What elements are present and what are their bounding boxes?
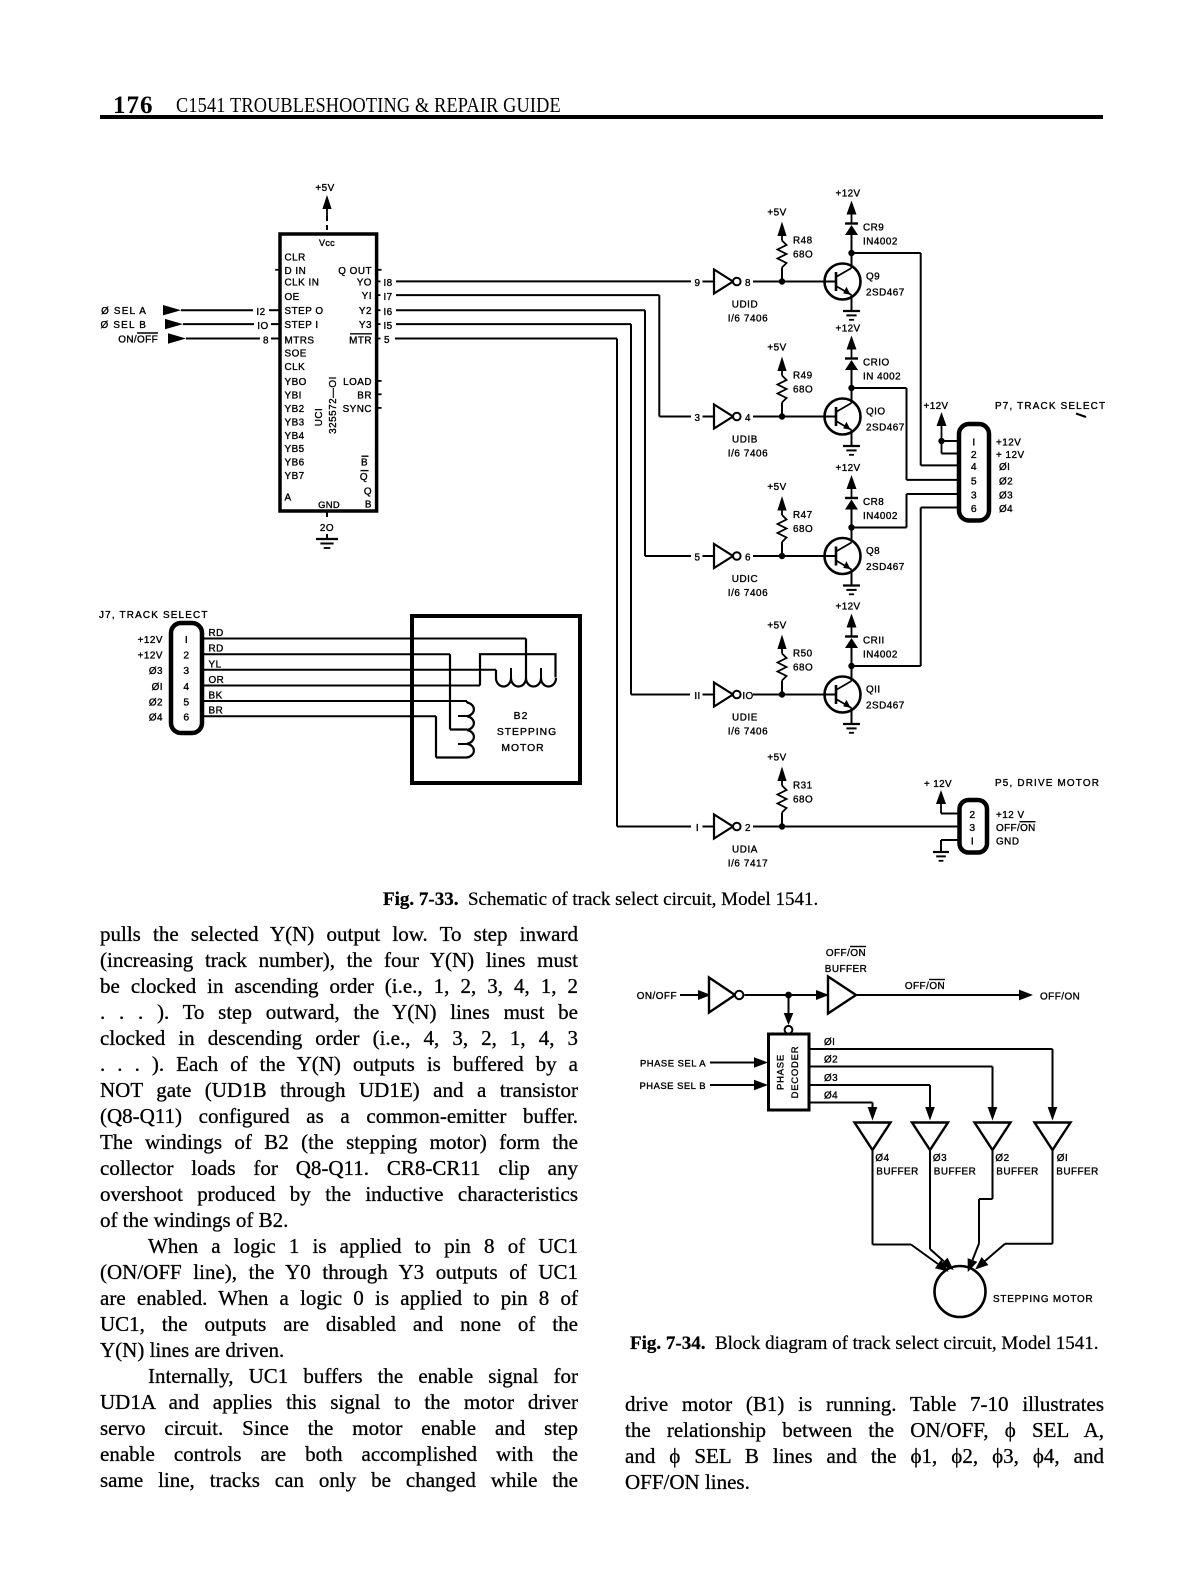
svg-text:QIO: QIO: [866, 407, 886, 418]
svg-text:+12V: +12V: [836, 463, 861, 474]
svg-text:YB3: YB3: [285, 417, 305, 428]
svg-text:8: 8: [263, 335, 269, 346]
svg-text:6: 6: [745, 553, 751, 564]
svg-text:+12 V: +12 V: [996, 810, 1025, 821]
svg-text:MTRS: MTRS: [285, 335, 315, 346]
svg-text:68O: 68O: [793, 795, 813, 806]
svg-text:+12V: +12V: [996, 437, 1021, 448]
svg-text:Ø4: Ø4: [149, 713, 163, 724]
svg-text:+12V: +12V: [138, 651, 163, 662]
svg-text:Ø3: Ø3: [933, 1153, 947, 1164]
svg-text:CLK: CLK: [285, 362, 306, 373]
svg-text:6: 6: [183, 713, 189, 724]
svg-text:OE: OE: [285, 292, 300, 303]
svg-text:I/6 7406: I/6 7406: [728, 727, 769, 738]
svg-text:+ 12V: + 12V: [924, 779, 952, 790]
svg-text:4: 4: [745, 413, 751, 424]
svg-text:+12V: +12V: [836, 602, 861, 613]
svg-text:YB5: YB5: [285, 444, 305, 455]
svg-text:Q8: Q8: [866, 546, 880, 557]
svg-text:RD: RD: [209, 644, 224, 655]
svg-text:Y2: Y2: [359, 306, 372, 317]
svg-text:YB7: YB7: [285, 471, 305, 482]
svg-text:2: 2: [745, 823, 751, 834]
svg-text:YO: YO: [357, 277, 372, 288]
svg-text:PHASE SEL A: PHASE SEL A: [640, 1059, 706, 1070]
svg-text:Ø2: Ø2: [999, 476, 1013, 487]
svg-text:Ø4: Ø4: [824, 1091, 838, 1102]
svg-text:I: I: [971, 836, 974, 847]
svg-text:+12V: +12V: [924, 401, 949, 412]
svg-text:STEPPING MOTOR: STEPPING MOTOR: [993, 1294, 1093, 1305]
svg-text:BUFFER: BUFFER: [996, 1167, 1039, 1178]
svg-text:+12V: +12V: [836, 324, 861, 335]
svg-text:3: 3: [971, 490, 977, 501]
svg-text:SYNC: SYNC: [343, 404, 372, 415]
svg-text:IO: IO: [742, 691, 753, 702]
svg-text:I/6 7406: I/6 7406: [728, 588, 769, 599]
svg-text:STEPPING: STEPPING: [497, 727, 557, 738]
svg-text:+5V: +5V: [767, 482, 786, 493]
svg-text:68O: 68O: [793, 385, 813, 396]
svg-text:ØI: ØI: [999, 462, 1010, 473]
svg-text:IN4002: IN4002: [863, 650, 898, 661]
svg-text:I/6 7417: I/6 7417: [728, 859, 769, 870]
svg-text:ØI: ØI: [1057, 1153, 1068, 1164]
svg-text:Ø2: Ø2: [824, 1055, 838, 1066]
svg-text:YI: YI: [362, 291, 372, 302]
svg-text:IN4002: IN4002: [863, 237, 898, 248]
svg-text:I/6 7406: I/6 7406: [728, 449, 769, 460]
svg-text:UDIB: UDIB: [732, 435, 758, 446]
svg-text:YL: YL: [209, 659, 222, 670]
svg-text:YB2: YB2: [285, 404, 305, 415]
svg-text:B2: B2: [514, 711, 529, 722]
svg-text:9: 9: [695, 278, 701, 289]
svg-text:I7: I7: [383, 292, 392, 303]
svg-text:Ø4: Ø4: [999, 504, 1013, 515]
svg-text:STEP I: STEP I: [285, 320, 319, 331]
svg-text:OFF/ON: OFF/ON: [905, 981, 945, 992]
svg-text:BR: BR: [357, 390, 372, 401]
svg-text:R49: R49: [793, 371, 813, 382]
svg-text:5: 5: [971, 476, 977, 487]
svg-text:CR8: CR8: [863, 497, 884, 508]
svg-text:YB4: YB4: [285, 431, 305, 442]
svg-text:BK: BK: [209, 691, 223, 702]
svg-text:Ø3: Ø3: [824, 1073, 838, 1084]
svg-text:OFF/ON: OFF/ON: [826, 948, 866, 959]
svg-text:D IN: D IN: [285, 266, 307, 277]
svg-text:UDIA: UDIA: [732, 845, 758, 856]
svg-text:Ø3: Ø3: [149, 666, 163, 677]
svg-text:6: 6: [971, 504, 977, 515]
svg-text:CLK IN: CLK IN: [285, 277, 320, 288]
svg-text:PHASE SEL B: PHASE SEL B: [639, 1081, 706, 1092]
svg-text:BUFFER: BUFFER: [876, 1167, 919, 1178]
svg-text:J7, TRACK SELECT: J7, TRACK SELECT: [99, 610, 209, 621]
svg-text:3: 3: [695, 413, 701, 424]
svg-text:R50: R50: [793, 649, 813, 660]
svg-text:5: 5: [183, 697, 189, 708]
svg-text:+ 12V: + 12V: [996, 450, 1025, 461]
svg-text:Ø4: Ø4: [875, 1153, 889, 1164]
svg-text:ØI: ØI: [824, 1037, 835, 1048]
svg-text:B: B: [365, 500, 372, 511]
svg-text:+5V: +5V: [767, 753, 786, 764]
svg-text:Q: Q: [364, 487, 372, 498]
svg-text:YBI: YBI: [285, 390, 302, 401]
svg-text:4: 4: [183, 682, 189, 693]
svg-text:UDID: UDID: [732, 300, 759, 311]
svg-text:Vcc: Vcc: [319, 238, 335, 248]
svg-text:2SD467: 2SD467: [866, 701, 905, 712]
svg-text:DECODER: DECODER: [790, 1046, 801, 1099]
svg-text:CLR: CLR: [285, 252, 306, 263]
svg-text:+5V: +5V: [767, 208, 786, 219]
svg-text:QII: QII: [866, 685, 881, 696]
svg-text:A: A: [285, 493, 292, 504]
svg-text:OR: OR: [209, 675, 225, 686]
svg-text:RD: RD: [209, 628, 224, 639]
svg-text:R31: R31: [793, 781, 813, 792]
svg-text:BUFFER: BUFFER: [934, 1167, 977, 1178]
svg-text:UCI: UCI: [314, 408, 325, 427]
svg-text:+5V: +5V: [767, 343, 786, 354]
svg-text:3: 3: [969, 823, 975, 834]
svg-text:8: 8: [745, 278, 751, 289]
svg-text:2: 2: [183, 651, 189, 662]
svg-text:R48: R48: [793, 236, 813, 247]
svg-text:UDIC: UDIC: [732, 574, 759, 585]
svg-text:Q9: Q9: [866, 272, 880, 283]
svg-text:Y3: Y3: [359, 320, 372, 331]
svg-text:CR9: CR9: [863, 223, 884, 234]
svg-text:II: II: [694, 691, 700, 702]
svg-text:IO: IO: [257, 321, 268, 332]
svg-text:68O: 68O: [793, 524, 813, 535]
svg-text:UDIE: UDIE: [732, 713, 758, 724]
svg-text:Ø3: Ø3: [999, 490, 1013, 501]
svg-text:2SD467: 2SD467: [866, 423, 905, 434]
svg-text:PHASE: PHASE: [776, 1054, 787, 1090]
svg-text:4: 4: [971, 462, 977, 473]
svg-text:B: B: [361, 458, 368, 469]
svg-text:OFF/ON: OFF/ON: [996, 823, 1036, 834]
svg-text:Ø2: Ø2: [149, 697, 163, 708]
svg-text:I5: I5: [383, 321, 392, 332]
svg-text:R47: R47: [793, 510, 813, 521]
svg-text:2O: 2O: [320, 523, 334, 534]
svg-text:3: 3: [183, 666, 189, 677]
svg-text:IN4002: IN4002: [863, 511, 898, 522]
svg-text:P7, TRACK SELECT: P7, TRACK SELECT: [995, 401, 1106, 412]
svg-text:YB6: YB6: [285, 458, 305, 469]
svg-text:+5V: +5V: [315, 183, 334, 194]
svg-text:P5, DRIVE MOTOR: P5, DRIVE MOTOR: [995, 778, 1100, 789]
svg-text:YBO: YBO: [285, 377, 307, 388]
svg-text:325572—OI: 325572—OI: [328, 376, 339, 434]
svg-text:CRIO: CRIO: [863, 358, 890, 369]
svg-text:BR: BR: [209, 706, 224, 717]
svg-text:CRII: CRII: [863, 636, 885, 647]
svg-text:+12V: +12V: [836, 189, 861, 200]
svg-text:ON/OFF: ON/OFF: [637, 991, 677, 1002]
svg-text:Ø2: Ø2: [995, 1153, 1009, 1164]
svg-text:Ø SEL A: Ø SEL A: [101, 306, 147, 317]
svg-text:68O: 68O: [793, 250, 813, 261]
svg-text:5: 5: [695, 553, 701, 564]
svg-text:SOE: SOE: [285, 348, 307, 359]
svg-text:I6: I6: [383, 307, 392, 318]
svg-text:I2: I2: [256, 307, 265, 318]
svg-text:I: I: [185, 635, 188, 646]
svg-text:BUFFER: BUFFER: [825, 964, 868, 975]
svg-text:5: 5: [384, 335, 390, 346]
svg-text:+12V: +12V: [138, 635, 163, 646]
svg-text:Ø SEL B: Ø SEL B: [101, 320, 147, 331]
svg-text:+5V: +5V: [767, 621, 786, 632]
svg-text:2SD467: 2SD467: [866, 288, 905, 299]
svg-text:2: 2: [969, 810, 975, 821]
svg-text:OFF/ON: OFF/ON: [1040, 992, 1080, 1003]
svg-text:BUFFER: BUFFER: [1056, 1167, 1099, 1178]
svg-text:ØI: ØI: [152, 682, 163, 693]
svg-text:2: 2: [971, 450, 977, 461]
svg-text:ON/OFF: ON/OFF: [118, 335, 158, 346]
svg-text:GND: GND: [996, 836, 1019, 847]
svg-text:Q OUT: Q OUT: [338, 266, 372, 277]
svg-text:Q: Q: [360, 472, 368, 483]
svg-text:LOAD: LOAD: [343, 377, 372, 388]
svg-text:I: I: [696, 823, 699, 834]
svg-text:68O: 68O: [793, 663, 813, 674]
svg-text:MTR: MTR: [349, 335, 372, 346]
svg-text:2SD467: 2SD467: [866, 562, 905, 573]
svg-text:I/6 7406: I/6 7406: [728, 314, 769, 325]
svg-text:GND: GND: [318, 500, 340, 511]
svg-text:MOTOR: MOTOR: [501, 743, 544, 754]
svg-text:IN 4002: IN 4002: [863, 372, 901, 383]
svg-text:STEP O: STEP O: [285, 306, 324, 317]
svg-text:I: I: [972, 437, 975, 448]
svg-text:I8: I8: [383, 278, 392, 289]
